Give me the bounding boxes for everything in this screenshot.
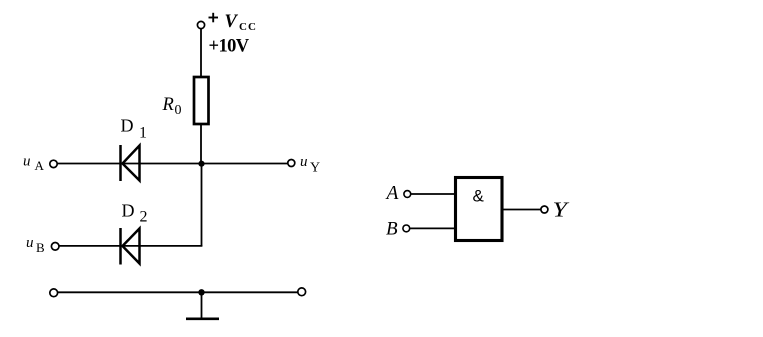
ground: [186, 292, 219, 319]
label D1: [121, 116, 148, 142]
svg-text:V: V: [225, 12, 239, 32]
power terminal +Vcc: [197, 21, 204, 28]
svg-text:B: B: [386, 219, 398, 240]
output terminal uY: [288, 160, 295, 167]
svg-text:R: R: [162, 95, 174, 115]
label uA: [23, 154, 45, 174]
wire B to gate: [410, 227, 456, 229]
wire gate to Y: [502, 209, 541, 211]
junction node: [198, 161, 204, 167]
label uY: [300, 154, 320, 176]
label uB: [26, 235, 45, 255]
bottom left terminal: [50, 289, 58, 297]
svg-text:Y: Y: [553, 198, 570, 222]
svg-text:0: 0: [175, 103, 182, 118]
svg-text:1: 1: [139, 125, 147, 142]
svg-text:2: 2: [140, 209, 148, 226]
svg-text:+10V: +10V: [209, 37, 250, 57]
label +Vcc: [209, 12, 257, 33]
svg-text:A: A: [385, 183, 399, 204]
label D2: [122, 201, 148, 226]
bottom right terminal: [298, 288, 306, 296]
svg-text:Y: Y: [310, 161, 320, 176]
svg-text:D: D: [121, 116, 134, 136]
svg-text:u: u: [23, 154, 31, 170]
resistor R0: [194, 77, 209, 124]
svg-text:CC: CC: [239, 21, 257, 33]
wire uB to node: [59, 245, 202, 247]
wire node down to D2: [201, 164, 203, 247]
svg-text:u: u: [300, 154, 308, 170]
input terminal uB: [51, 243, 59, 251]
and-gate U1: [456, 178, 503, 241]
diode D1: [121, 145, 140, 181]
input terminal uA: [50, 160, 57, 167]
svg-text:u: u: [26, 235, 34, 251]
svg-text:B: B: [36, 240, 45, 255]
terminal Y: [541, 206, 548, 213]
junction on rail: [198, 289, 204, 295]
terminal B: [403, 225, 410, 232]
wire Vcc to R0: [200, 29, 202, 77]
svg-text:A: A: [35, 158, 45, 173]
wire A to gate: [411, 193, 456, 195]
bottom rail wire: [58, 291, 299, 293]
wire uA to uY: [57, 163, 288, 165]
svg-text:D: D: [122, 201, 135, 221]
label R0: [162, 95, 182, 118]
terminal A: [404, 191, 411, 198]
svg-text:&: &: [473, 187, 485, 206]
diode D2: [121, 228, 140, 265]
wire R0 to node: [200, 124, 202, 164]
